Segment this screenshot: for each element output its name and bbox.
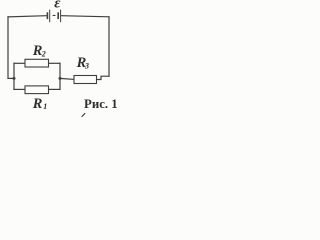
- wire bottom branch right: [49, 88, 61, 90]
- wire left bar of parallel block: [13, 63, 15, 89]
- svg-text:3: 3: [84, 61, 89, 70]
- wire left vertical: [7, 17, 9, 79]
- wire top branch right: [49, 62, 61, 64]
- svg-text:2: 2: [41, 50, 46, 59]
- resistor R2 box: [25, 59, 49, 67]
- wire top branch left: [14, 62, 25, 64]
- battery cell 1 short plate: [47, 12, 49, 19]
- resistor R1 box: [25, 86, 49, 94]
- svg-text:R: R: [32, 96, 43, 112]
- battery dash between cells: [53, 15, 56, 16]
- wire right vertical: [108, 17, 110, 76]
- wire right bar of parallel block: [59, 63, 61, 89]
- junction node left: [13, 77, 16, 80]
- wire left stub to parallel block: [8, 77, 14, 79]
- wire stub to R3: [60, 78, 74, 79]
- svg-text:ε: ε: [54, 0, 61, 11]
- junction node right: [59, 77, 62, 80]
- resistor R3 box: [74, 76, 97, 84]
- stray tick mark: [82, 113, 86, 117]
- svg-text:Рис. 1: Рис. 1: [84, 97, 118, 111]
- wire top-right: [61, 16, 109, 17]
- battery cell 1 long plate: [49, 10, 50, 23]
- svg-text:1: 1: [43, 102, 47, 111]
- wire R3 to corner jog: [97, 76, 110, 79]
- battery cell 2 short plate: [57, 12, 59, 19]
- wire top-left: [8, 16, 46, 17]
- battery cell 2 long plate: [60, 10, 61, 23]
- wire bottom branch left: [14, 88, 25, 90]
